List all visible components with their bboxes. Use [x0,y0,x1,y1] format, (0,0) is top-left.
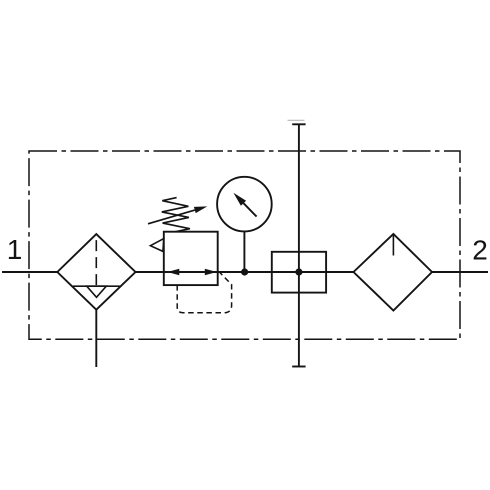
filter / water separator F1 body [57,234,135,310]
junction: branch point [295,268,302,275]
wire: block to lubricator [326,271,353,273]
R1 adjustment spring [162,198,190,232]
plug: branch line bottom cap [292,366,305,368]
R1 flow arrowhead right [205,269,217,276]
pressure gauge G1 body [217,177,272,232]
wire: main line through block [272,271,326,273]
R1 adjustment arrow [148,210,195,224]
svg-text:1: 1 [7,234,23,265]
wire: gauge stem [243,231,245,272]
R1 flow arrowhead left [167,269,179,276]
regulator R1 body [164,232,218,285]
wire: F1 condensate drain [95,310,97,367]
plug: branch line top cap [292,123,305,125]
F1 drain triangle [87,286,107,297]
svg-text:2: 2 [472,235,488,266]
enclosure frame (dash-dot service-unit boundary) [29,151,460,339]
lubricator L1 body [354,234,433,311]
R1 relief vent triangle [150,239,163,252]
wire: regulator to branch block [218,271,272,273]
R1 pilot line (dashed feedback) [177,272,231,312]
L1 drip line [392,234,394,256]
F1 separator chord [73,285,120,287]
junction: gauge tap [241,268,248,275]
R1 flow path through body [164,271,218,273]
wire: port 1 inlet [2,271,57,273]
F1 filter element (dashed centre line) [95,234,97,286]
branch / distributor block [272,252,326,293]
wire: vertical branch line [298,124,300,366]
wire: F1 to regulator [136,271,164,273]
G1 needle [244,203,257,216]
wire: outlet to port 2 [432,271,488,273]
